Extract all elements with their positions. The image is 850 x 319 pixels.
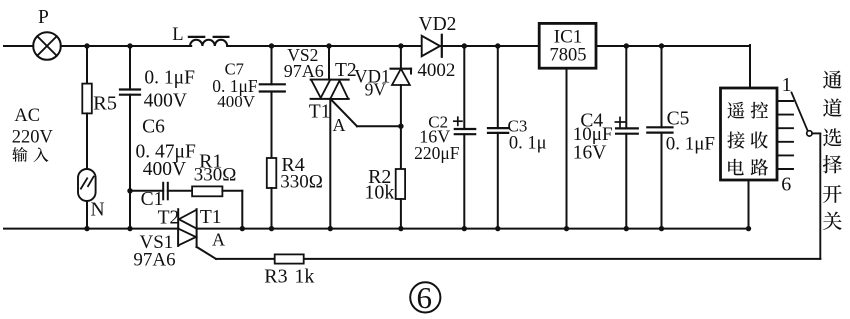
triac VS1 <box>178 209 196 247</box>
svg-text:A: A <box>212 230 225 250</box>
svg-text:AC: AC <box>14 106 40 126</box>
svg-text:T2: T2 <box>158 208 180 229</box>
label 择 switch <box>823 155 842 173</box>
node junction snubber tap <box>127 188 132 193</box>
svg-text:IC1: IC1 <box>554 27 583 48</box>
svg-text:4002: 4002 <box>417 60 455 81</box>
node junction R1 snubber bottom <box>240 226 245 231</box>
wire C1 to R1 <box>168 190 192 192</box>
wire bottom bus right of VS1 <box>197 228 749 230</box>
wire switch to down line <box>812 132 820 134</box>
wire receiver pin 1 stub <box>777 100 793 102</box>
wire C3 top <box>497 46 499 128</box>
svg-text:330Ω: 330Ω <box>194 165 237 186</box>
node junction C4 top <box>624 43 629 48</box>
node junction receiver gnd <box>746 226 751 231</box>
node junction VS2 bottom <box>328 226 333 231</box>
label ru (input) <box>34 147 49 162</box>
svg-text:1k: 1k <box>294 265 314 287</box>
wire top bus IC1 to receiver <box>596 45 750 47</box>
svg-text:N: N <box>91 199 105 220</box>
label lu <box>751 158 768 175</box>
node junction C6 branch top <box>127 43 132 48</box>
wire top bus left segment <box>4 45 33 47</box>
triac VS2 <box>311 80 349 99</box>
label shou <box>751 132 768 149</box>
wire C6 branch top <box>129 46 131 90</box>
label dian <box>728 159 744 176</box>
node junction VD1 branch top <box>398 43 403 48</box>
node junction C7 branch top <box>269 43 274 48</box>
node junction R4 bottom <box>269 226 274 231</box>
lamp P <box>33 32 61 60</box>
svg-text:L: L <box>172 25 183 45</box>
capacitor 0.1uF 400V <box>120 90 140 95</box>
label jie <box>727 131 744 148</box>
resistor R3 <box>275 254 304 263</box>
neon lamp N <box>78 169 96 201</box>
svg-text:0. 1μF: 0. 1μF <box>666 134 715 155</box>
svg-text:VD2: VD2 <box>419 14 457 35</box>
wire receiver pin 2 stub <box>777 114 793 116</box>
node junction C3 bottom <box>495 226 500 231</box>
svg-text:6: 6 <box>781 174 791 196</box>
svg-text:T1: T1 <box>309 102 331 123</box>
svg-text:R5: R5 <box>93 93 117 115</box>
svg-text:0. 1μF: 0. 1μF <box>144 68 195 89</box>
inductor L <box>189 37 229 46</box>
wire VS2 gate diagonal <box>331 100 357 127</box>
wire C2 top <box>463 46 465 129</box>
svg-text:0. 1μ: 0. 1μ <box>509 133 547 153</box>
resistor R4 <box>267 158 277 188</box>
node junction C4 bottom <box>624 226 629 231</box>
node junction C6 bottom <box>127 226 132 231</box>
wire C2 bottom <box>463 134 465 228</box>
wire C5 bottom <box>661 133 663 229</box>
label 关 switch <box>823 212 842 230</box>
capacitor C7 <box>260 84 285 91</box>
capacitor C1 <box>163 183 168 200</box>
wire R2 to bus <box>400 199 402 229</box>
switch pole circle <box>807 131 812 136</box>
wire receiver pin 3 stub <box>777 127 793 129</box>
node junction C3 top <box>495 43 500 48</box>
resistor R1 <box>192 186 222 196</box>
svg-text:330Ω: 330Ω <box>280 172 323 193</box>
capacitor C2 electrolytic <box>454 117 475 134</box>
diode VD2 <box>422 35 442 57</box>
capacitor C5 <box>647 127 672 132</box>
wire IC1 ground pin <box>566 68 568 229</box>
wire C6 branch bottom <box>129 95 131 229</box>
figure number 6 circled <box>410 280 440 315</box>
node junction R5 neon bottom <box>84 226 89 231</box>
resistor R5 <box>82 84 92 114</box>
svg-text:97A6: 97A6 <box>133 250 175 271</box>
svg-text:P: P <box>38 7 49 28</box>
capacitor C4 electrolytic <box>615 117 637 133</box>
svg-text:220μF: 220μF <box>414 143 460 163</box>
svg-text:16V: 16V <box>573 143 607 164</box>
svg-text:C5: C5 <box>667 108 690 129</box>
svg-text:400V: 400V <box>217 92 256 111</box>
wire R4 to bus <box>271 188 273 229</box>
wire C7 branch top <box>271 46 273 84</box>
node junction IC1 gnd <box>564 226 569 231</box>
wire R1 to bus <box>222 190 242 192</box>
label 通 switch <box>823 71 842 89</box>
wire VS2 branch top <box>328 46 330 80</box>
svg-text:400V: 400V <box>144 91 187 112</box>
wire C5 top <box>661 46 663 127</box>
wire snubber left <box>130 190 163 192</box>
wire C3 bottom <box>497 133 499 229</box>
svg-text:R3: R3 <box>264 265 287 287</box>
wire neon to bottom bus <box>86 201 88 229</box>
wire switch vertical <box>819 133 821 259</box>
svg-text:7805: 7805 <box>550 46 587 66</box>
wire VS1 gate <box>197 247 216 259</box>
svg-text:6: 6 <box>416 280 432 315</box>
switch arm channel selector <box>792 93 808 132</box>
node junction C5 top <box>659 43 664 48</box>
wire VS2 gate horizontal <box>357 125 401 127</box>
wire top bus lamp to inductor <box>61 45 191 47</box>
node junction VS2 branch top <box>326 43 331 48</box>
node junction C2 bottom <box>462 226 467 231</box>
node junction R5 top <box>84 43 89 48</box>
svg-text:T1: T1 <box>200 207 222 228</box>
wire top bus inductor to IC1 <box>227 45 539 47</box>
wire C4 bottom <box>625 134 627 229</box>
svg-text:220V: 220V <box>12 127 54 147</box>
svg-text:10k: 10k <box>364 182 394 204</box>
receiver box remote control <box>721 88 778 180</box>
wire receiver pin 4 stub <box>777 141 793 143</box>
node junction C5 bottom <box>659 226 664 231</box>
wire C7 to R4 <box>271 92 273 159</box>
label shu (input) <box>12 147 27 162</box>
svg-text:A: A <box>333 115 346 135</box>
wire VS2 to bus <box>329 99 331 229</box>
node junction gate R2 <box>398 124 403 129</box>
wire receiver ground pin <box>748 180 750 229</box>
wire receiver pin 5 stub <box>777 154 793 156</box>
svg-text:C6: C6 <box>142 116 165 137</box>
resistor R2 <box>396 169 405 199</box>
svg-text:97A6: 97A6 <box>284 61 324 81</box>
node junction C2 top <box>462 43 467 48</box>
svg-text:1: 1 <box>782 74 792 96</box>
wire C4 top <box>625 46 627 128</box>
label kong <box>751 102 768 119</box>
wire gate line to switch <box>216 258 820 260</box>
label 选 switch <box>823 128 842 146</box>
node junction R2 bottom <box>398 226 403 231</box>
wire VD1 to R2 <box>400 85 402 169</box>
svg-text:400V: 400V <box>143 159 186 180</box>
label 道 switch <box>823 98 842 116</box>
label yao <box>727 102 744 119</box>
wire R5 to neon <box>86 113 88 169</box>
svg-text:9V: 9V <box>365 80 387 100</box>
op-amp IC1 box 7805 <box>539 23 596 68</box>
capacitor C3 <box>488 128 508 133</box>
wire receiver box top feed <box>749 45 751 89</box>
wire bottom bus left of VS1 <box>4 228 178 230</box>
wire R5 branch top <box>86 46 88 84</box>
wire receiver pin 6 stub <box>777 168 793 170</box>
zener diode VD1 <box>391 69 411 85</box>
wire VD1 branch top <box>400 46 402 69</box>
label 开 switch <box>823 185 842 203</box>
